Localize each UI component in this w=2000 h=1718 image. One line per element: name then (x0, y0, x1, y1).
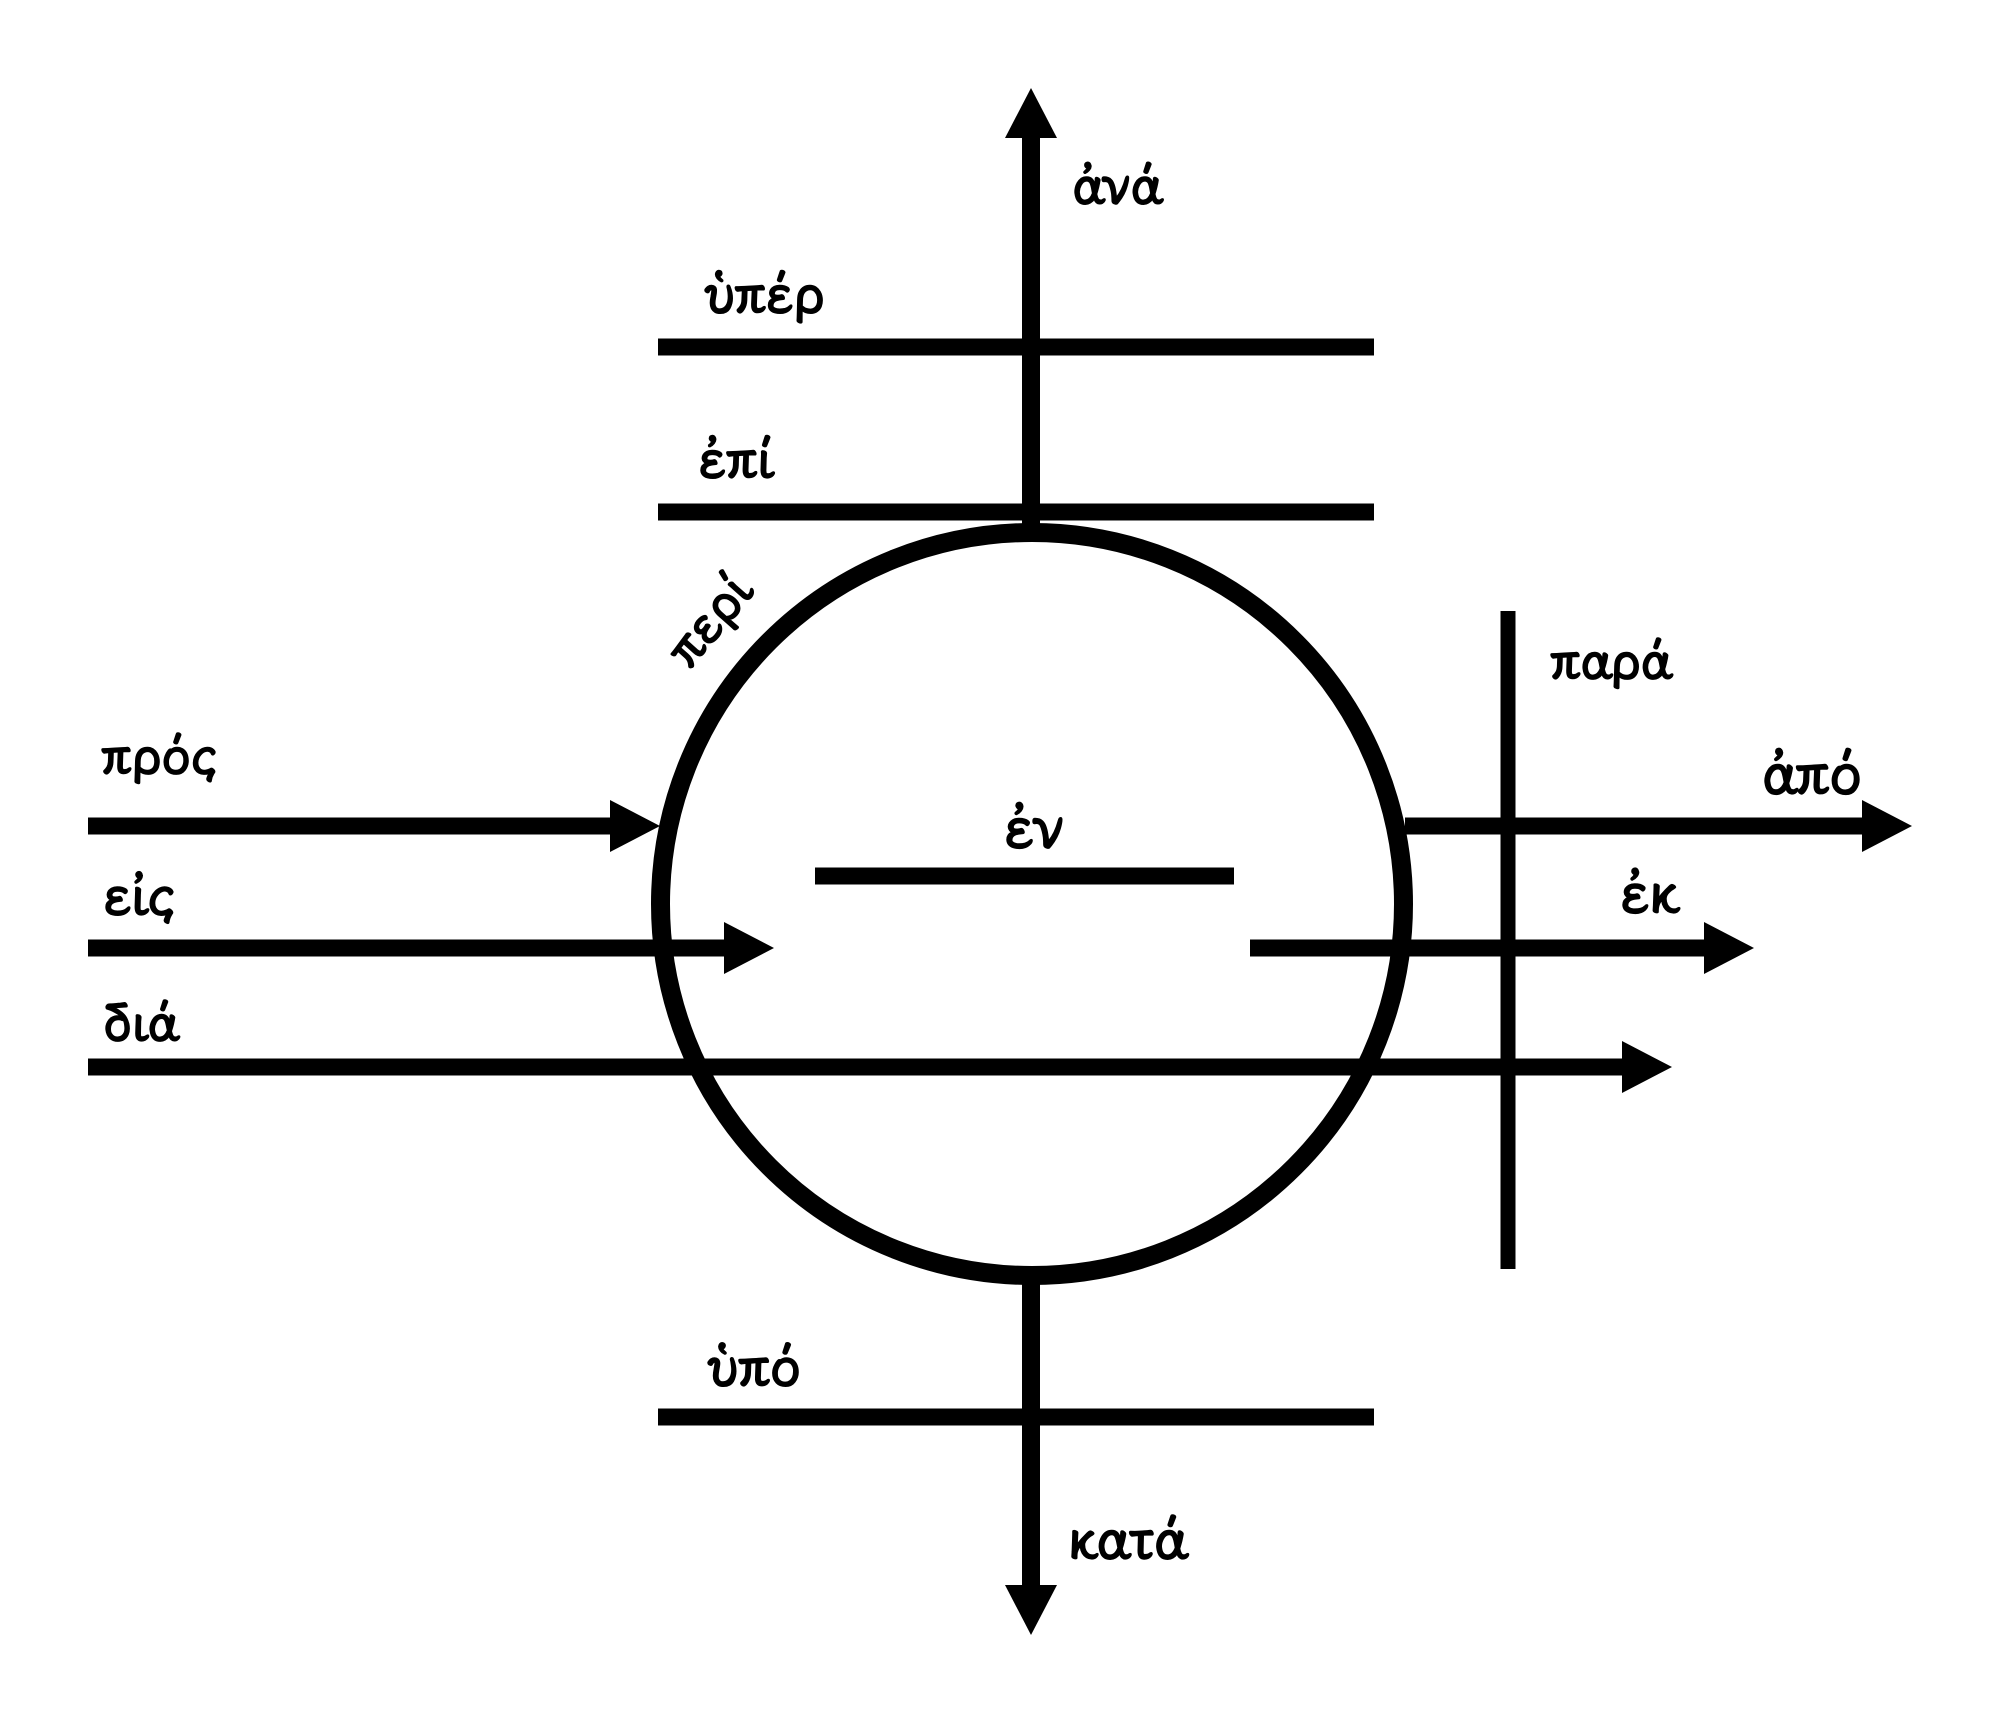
arrow ek (out of) (1250, 922, 1754, 974)
label dia (διά) (106, 1000, 180, 1041)
label hypo (ὑπό) (708, 1343, 798, 1387)
line epi (upon, tangent to circle top) (658, 504, 1374, 521)
arrow pros (toward, tip at circle edge) (88, 800, 660, 852)
label kata (κατά) (1072, 1515, 1189, 1559)
line hypo (under) (658, 1409, 1374, 1426)
label ek (ἐκ) (1623, 868, 1680, 913)
label apo (ἀπό) (1765, 748, 1859, 794)
arrow dia (through) (88, 1041, 1672, 1093)
label pros (πρός) (102, 733, 215, 784)
line en (in, inside circle) (815, 868, 1234, 885)
line para (beside, vertical) (1501, 611, 1516, 1269)
arrow kata (down below) (1005, 1280, 1057, 1635)
label para (παρά) (1551, 638, 1673, 689)
line hyper (over) (658, 339, 1374, 356)
label epi (ἐπί) (701, 435, 774, 478)
label ana (ἀνά) (1075, 162, 1163, 204)
circle (sphere) (661, 533, 1404, 1276)
arrow ana (up out of top) (1005, 88, 1057, 525)
label en (ἐν) (1007, 802, 1062, 848)
label eis (εἰς) (106, 872, 173, 924)
label peri (περί, rotated along circle) (659, 566, 763, 677)
label hyper (ὑπέρ) (705, 270, 822, 323)
arrow eis (into) (88, 922, 774, 974)
arrow apo (away from) (1405, 800, 1912, 852)
